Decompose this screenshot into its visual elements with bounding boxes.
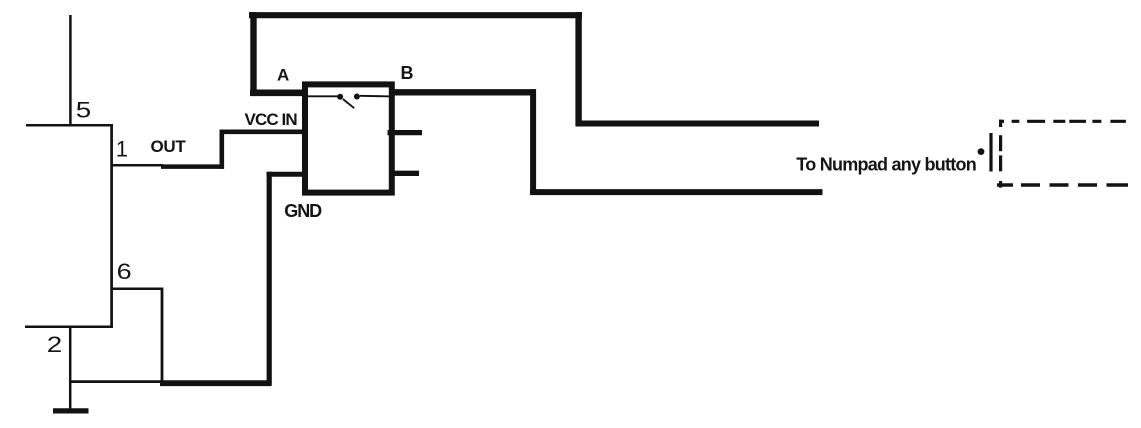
wire top horizontal (A to right vertical) [249,12,582,18]
numpad button dashed box top edge [999,120,1126,123]
wire B horizontal from box [392,89,537,95]
numpad button dashed box left edge [999,120,1002,188]
svg-text:2: 2 [47,332,63,357]
switch contact dot left [337,94,343,100]
svg-text:5: 5 [76,98,92,123]
wire B vertical down [530,89,536,195]
svg-text:1: 1 [116,136,128,161]
svg-text:GND: GND [284,201,322,221]
wire A vertical up [250,12,256,96]
switch contact dot right [354,94,360,100]
IC U1 right edge [110,124,113,328]
wire GND horizontal from box [267,172,306,177]
wire top right vertical down [575,12,581,126]
switch box U2 [305,84,392,192]
pin 5 wire (vertical into IC top) [69,15,72,126]
wire A horizontal into box [250,90,305,97]
pin 1 wire (thin) [111,164,163,167]
node: pin2 to GND net (thin horizontal) [69,380,161,383]
pin 2 wire (vertical to ground) [69,327,72,410]
wire OUT thick horizontal [161,164,224,169]
switch contact wire left [307,95,338,97]
numpad button contact bar (solid vertical) [989,133,992,172]
wire right lower horizontal to numpad [530,189,823,195]
wire GND vertical down [267,172,272,386]
box right stub pin upper [388,130,423,135]
numpad button dashed box bottom edge [997,183,1128,186]
IC U1 (left partial outline, top edge) [26,124,113,127]
switch contact wire right [360,95,390,98]
wire GND bottom thick horizontal [160,380,271,386]
svg-text:VCC IN: VCC IN [245,110,298,129]
svg-text:To Numpad any button: To Numpad any button [796,154,976,174]
switch lever (open arm) [343,99,354,108]
wire VCC IN horizontal into box [220,130,306,135]
ground [53,408,89,413]
pin 6 wire vertical [161,288,164,382]
svg-text:A: A [277,65,289,84]
svg-text:OUT: OUT [151,137,187,156]
svg-text:B: B [401,63,414,83]
node dot at numpad button [978,148,985,155]
pin 6 wire horizontal [111,287,162,290]
svg-text:6: 6 [117,259,132,284]
IC U1 bottom edge [25,326,113,329]
wire OUT vertical up [220,130,225,169]
box right stub pin lower [392,171,420,176]
wire right upper horizontal to numpad [576,121,820,127]
